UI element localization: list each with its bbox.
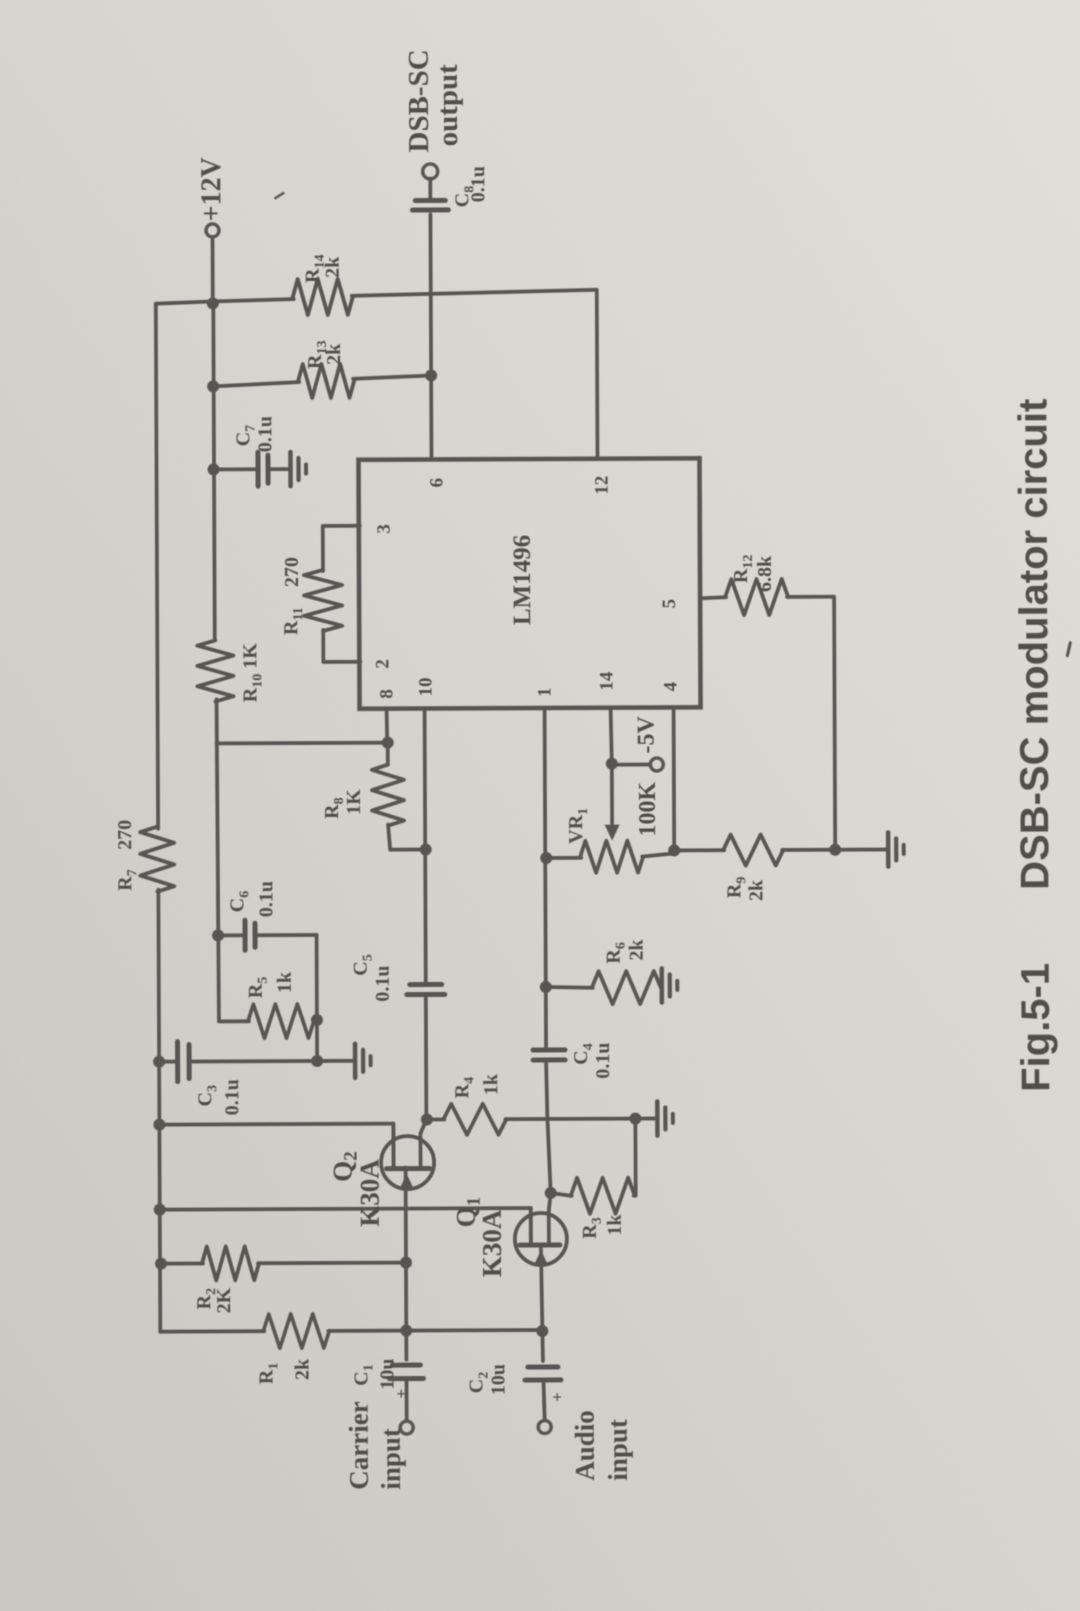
pin 2 label xyxy=(372,659,393,669)
label R13 2k xyxy=(304,340,345,369)
resistor R7 xyxy=(140,827,174,892)
wire R4 top stub xyxy=(426,1118,444,1122)
capacitor C8 xyxy=(412,200,448,210)
svg-text:2k: 2k xyxy=(626,939,648,961)
label Q2 K30A xyxy=(328,1151,385,1227)
wire R12 to ground line xyxy=(787,597,835,850)
node R6 tap junction xyxy=(540,981,552,993)
wire pin 5 stub xyxy=(700,597,726,598)
wire R2 to gate line xyxy=(258,1261,406,1265)
wire Q1 drain column xyxy=(160,1208,531,1245)
label VR1 xyxy=(565,808,591,844)
svg-text:LM1496: LM1496 xyxy=(509,535,536,625)
node pin4/VR1/R9 junction xyxy=(668,844,680,856)
svg-text:4: 4 xyxy=(660,681,681,691)
svg-text:10: 10 xyxy=(415,677,436,696)
node pin8 junction xyxy=(382,737,394,749)
terminal +12V xyxy=(206,224,219,237)
svg-text:1: 1 xyxy=(534,687,555,697)
label R6 2k xyxy=(603,939,648,964)
svg-text:12: 12 xyxy=(592,476,613,495)
label C2 10u xyxy=(465,1364,509,1395)
wire Q1 gate line xyxy=(541,1247,543,1361)
svg-text:2k: 2k xyxy=(322,256,344,278)
svg-text:-5V: -5V xyxy=(634,715,660,753)
resistor R2 xyxy=(202,1246,259,1280)
wire pin 1 line (right) xyxy=(545,708,546,1047)
svg-text:2K: 2K xyxy=(213,1287,235,1313)
label figure caption xyxy=(1011,399,1058,1092)
terminal -5V xyxy=(650,758,663,771)
wire pin 4 line xyxy=(672,707,676,850)
node R8/pin10 junction xyxy=(420,843,432,855)
pin 5 label xyxy=(659,599,680,609)
svg-text:2k: 2k xyxy=(745,879,767,901)
wire R9 to ground node xyxy=(782,848,835,852)
terminal carrier input xyxy=(400,1421,413,1434)
pin 6 label xyxy=(427,478,448,488)
svg-text:input: input xyxy=(603,1419,633,1481)
wire R2 top stub xyxy=(160,1262,203,1266)
svg-text:10u: 10u xyxy=(487,1364,509,1395)
transistor Q2 K30A xyxy=(381,1119,434,1189)
transistor Q1 K30A xyxy=(515,1193,567,1265)
capacitor C3 xyxy=(178,1042,190,1082)
node Q1 source junction xyxy=(545,1187,557,1199)
wire R3 bottom line xyxy=(633,1119,635,1196)
wire C3 to ground xyxy=(191,1059,353,1064)
node R1/audio-gate junction xyxy=(536,1325,548,1337)
label R11 270 xyxy=(280,557,306,635)
svg-text:100K: 100K xyxy=(635,781,661,836)
svg-text:+12V: +12V xyxy=(196,157,227,221)
svg-text:Audio: Audio xyxy=(570,1410,600,1481)
label Audio input xyxy=(570,1410,633,1481)
label Q1 K30A xyxy=(451,1197,507,1278)
wire pin 10 line (right of C5) xyxy=(425,709,426,983)
svg-text:0.1u: 0.1u xyxy=(592,1043,614,1079)
wire C2 to audio terminal xyxy=(544,1382,545,1420)
svg-text:0.1u: 0.1u xyxy=(221,1079,243,1115)
svg-text:2k: 2k xyxy=(323,343,345,365)
wire pin 8 stub xyxy=(385,709,389,743)
terminal audio input xyxy=(538,1420,551,1433)
wire pin 1 line (left) xyxy=(546,1063,551,1193)
svg-text:output: output xyxy=(432,64,464,147)
label C5 0.1u xyxy=(350,954,394,1002)
pin 3 label xyxy=(374,524,395,534)
pin 8 label xyxy=(376,689,397,699)
node R5 bottom junction xyxy=(311,1014,323,1026)
pin 10 label xyxy=(415,677,436,696)
svg-text:6: 6 xyxy=(427,478,448,488)
node ground node junction xyxy=(829,844,841,856)
label 100K xyxy=(635,781,661,836)
capacitor C5 xyxy=(407,984,445,994)
resistor R10 xyxy=(197,640,233,701)
resistor R1 xyxy=(263,1314,329,1348)
svg-text:0.1u: 0.1u xyxy=(372,966,394,1002)
wire ground stub xyxy=(835,848,886,852)
label C3 0.1u xyxy=(194,1079,243,1115)
op-amp U1 LM1496 body xyxy=(358,458,700,708)
label R12 6.8k xyxy=(730,555,776,593)
svg-text:0.1u: 0.1u xyxy=(254,416,276,452)
svg-text:14: 14 xyxy=(596,671,617,691)
wire R8 to pin8 node xyxy=(386,743,390,765)
wire R6 stub xyxy=(546,987,593,988)
capacitor C1 xyxy=(389,1365,423,1379)
label +12V xyxy=(196,157,227,221)
resistor R9 xyxy=(723,834,783,865)
wire R10 corner down to pin 8 xyxy=(217,741,388,746)
svg-text:1K: 1K xyxy=(343,789,365,815)
label R5 1k xyxy=(245,971,296,998)
svg-text:1k: 1k xyxy=(480,1073,502,1095)
svg-text:K30A: K30A xyxy=(355,1159,385,1227)
label -5V xyxy=(634,715,660,753)
resistor R14 xyxy=(293,279,353,315)
node R13/pin6 junction xyxy=(425,369,437,381)
label C1 polarity + xyxy=(392,1389,411,1399)
wire C1 to carrier terminal xyxy=(405,1381,409,1421)
node R2/gate junction xyxy=(400,1257,412,1269)
wire Q2 gate line xyxy=(404,1168,409,1360)
node C3 top junction xyxy=(153,1056,165,1068)
node R2 rail junction xyxy=(155,1258,167,1270)
wire supply to R5 corner xyxy=(217,699,249,1021)
ground (C7) xyxy=(290,452,306,486)
pin 1 label xyxy=(534,687,555,697)
svg-text:270: 270 xyxy=(114,820,136,850)
ground (C3 branch) xyxy=(355,1044,371,1078)
resistor R3 xyxy=(571,1178,635,1214)
wire C7 to ground xyxy=(270,467,290,471)
wire pin 14 line xyxy=(611,708,613,830)
label Carrier input xyxy=(344,1401,406,1490)
wire R1 to gate lines xyxy=(328,1328,542,1333)
wire VR1 bottom to pin4 line xyxy=(642,853,674,856)
capacitor C7 xyxy=(258,452,268,486)
wire +12V feed xyxy=(211,237,215,303)
capacitor C6 xyxy=(245,920,255,950)
label DSB-SC output xyxy=(403,49,464,152)
svg-text:8: 8 xyxy=(376,689,397,699)
wire top supply rail (right of R7) xyxy=(156,304,158,829)
node Q1 drain rail junction xyxy=(154,1204,166,1216)
wire pin 6 line xyxy=(430,214,431,459)
ground (R6) xyxy=(662,968,678,1002)
resistor R13 column wire xyxy=(213,382,299,386)
svg-text:+: + xyxy=(548,1392,567,1402)
node Q2 source junction xyxy=(421,1113,433,1125)
ground (R9/R12) xyxy=(888,832,904,866)
label R7 270 xyxy=(114,820,140,891)
svg-text:DSB-SC: DSB-SC xyxy=(403,49,435,152)
svg-text:0.1u: 0.1u xyxy=(467,166,489,202)
wire C6 stub xyxy=(218,933,244,937)
node C3/R5 junction xyxy=(311,1055,323,1067)
resistor R8 xyxy=(372,765,404,826)
label R1 2k xyxy=(255,1358,313,1384)
wire C3 stub xyxy=(159,1060,176,1064)
wire R8 to pin10 line xyxy=(388,825,425,850)
capacitor C4 xyxy=(533,1050,565,1060)
capacitor C2 xyxy=(525,1367,561,1380)
wire top supply rail (left of R7) xyxy=(158,890,160,1332)
label R3 1k xyxy=(579,1214,626,1239)
svg-text:2: 2 xyxy=(372,659,393,669)
node Q2 drain rail junction xyxy=(153,1119,165,1131)
terminal DSB-SC output xyxy=(423,164,438,179)
potentiometer VR1 wiper arrow xyxy=(605,825,620,841)
label C6 0.1u xyxy=(226,881,277,917)
label R9 2k xyxy=(723,877,767,902)
resistor R11 xyxy=(304,570,342,631)
svg-text:3: 3 xyxy=(374,524,395,534)
node C6 top junction xyxy=(212,929,224,941)
label C2 polarity + xyxy=(548,1392,567,1402)
wire R9 top stub xyxy=(674,848,724,852)
svg-text:10u: 10u xyxy=(376,1358,398,1389)
wire +12V rail xyxy=(213,303,214,639)
wire C6 bottom xyxy=(257,933,317,937)
label R8 1K xyxy=(321,789,365,819)
svg-text:1k: 1k xyxy=(274,971,296,993)
svg-text:5: 5 xyxy=(659,599,680,609)
label R14 2k xyxy=(302,254,344,283)
svg-text:0.1u: 0.1u xyxy=(255,881,277,917)
wire -5V stub xyxy=(612,763,650,767)
wire R4 to ground xyxy=(505,1117,655,1121)
node R1/carrier-gate junction xyxy=(400,1325,412,1337)
pin 14 label xyxy=(596,671,617,691)
label C4 0.1u xyxy=(570,1043,614,1079)
wire R14 column to pin 12 xyxy=(352,290,598,458)
wire R13 to pin6 line xyxy=(353,375,431,378)
wire C8 to output terminal xyxy=(428,178,432,198)
resistor R4 xyxy=(443,1104,506,1135)
wire rail corner to R1 xyxy=(160,1329,264,1333)
resistor R6 xyxy=(592,971,661,1004)
wire VR1 top to pin1 line xyxy=(546,856,581,860)
wire pin 2 riser xyxy=(323,630,360,662)
svg-text:Carrier: Carrier xyxy=(344,1401,374,1490)
node R3 bottom junction xyxy=(629,1113,641,1125)
resistor R5 xyxy=(248,1004,314,1038)
label LM1496 xyxy=(509,535,536,625)
svg-text:Fig.5-1: Fig.5-1 xyxy=(1014,963,1059,1092)
node R13 top junction xyxy=(207,380,219,392)
resistor R13 xyxy=(298,364,354,398)
svg-text:K30A: K30A xyxy=(477,1209,507,1277)
node VR1 top tap junction xyxy=(540,852,552,864)
ground (R4 column) xyxy=(657,1101,673,1135)
svg-text:6.8k: 6.8k xyxy=(754,555,776,592)
svg-text:DSB-SC modulator circuit: DSB-SC modulator circuit xyxy=(1011,399,1057,890)
node +12V junction xyxy=(207,297,219,309)
resistor R12 xyxy=(725,579,788,615)
wire Q2 drain column xyxy=(159,1124,393,1167)
svg-text:input: input xyxy=(376,1428,406,1490)
pin 4 label xyxy=(660,681,681,691)
label R2 2K xyxy=(193,1287,235,1313)
wire R5 bottom line xyxy=(315,935,319,1058)
label R4 1k xyxy=(451,1073,502,1098)
wire +12V riser / R14 column upper xyxy=(156,299,294,304)
label R10 1K xyxy=(239,643,265,703)
wire C7 stub xyxy=(214,467,256,471)
label C1 10u xyxy=(350,1358,398,1389)
stray mark xyxy=(1067,643,1070,656)
label C8 0.1u xyxy=(451,166,489,207)
wire R3 top stub xyxy=(551,1193,572,1196)
label C7 0.1u xyxy=(232,416,276,452)
node -5V tap junction xyxy=(606,758,618,770)
node C7 top junction xyxy=(208,463,220,475)
wire pin 3 riser xyxy=(323,526,360,571)
wire pin 10 line (left of C5) xyxy=(424,997,428,1118)
svg-text:270: 270 xyxy=(281,557,303,587)
potentiometer VR1 xyxy=(580,841,643,873)
stray mark 2 xyxy=(275,193,283,198)
svg-text:1k: 1k xyxy=(604,1214,626,1236)
pin 12 label xyxy=(592,476,613,495)
svg-text:2k: 2k xyxy=(291,1358,313,1380)
